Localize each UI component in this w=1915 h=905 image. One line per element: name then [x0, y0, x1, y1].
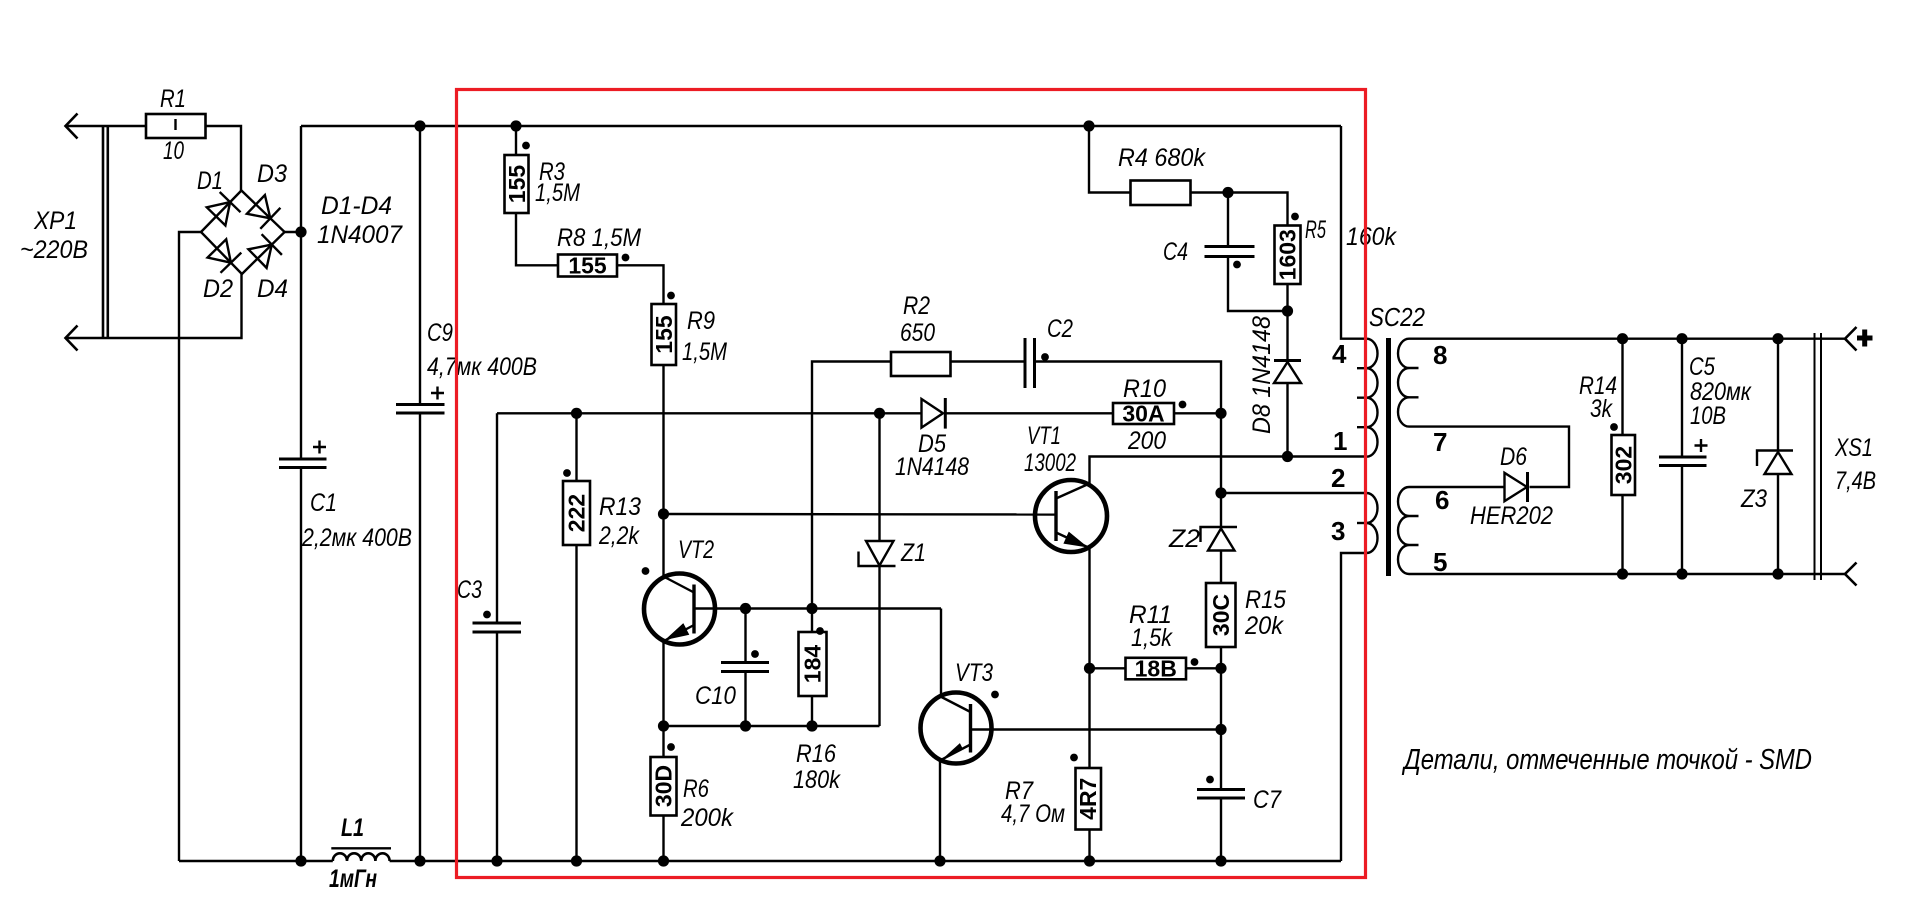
svg-text:1,5k: 1,5k [1131, 624, 1173, 652]
label C3 [457, 576, 482, 604]
capacitor C5 [1659, 439, 1708, 466]
svg-text:200: 200 [1127, 427, 1166, 455]
svg-text:D2: D2 [203, 275, 233, 303]
wire D6 anode to pin6 [1409, 486, 1505, 488]
node C7 bottom [1215, 855, 1226, 866]
resistor R4 [1131, 181, 1191, 206]
node C10 top [740, 603, 751, 614]
label R9 [682, 307, 727, 366]
svg-text:L1: L1 [341, 814, 364, 842]
node R6 bottom [658, 855, 669, 866]
wire R6 bottom [662, 816, 664, 862]
wire Z1 anode down [878, 566, 880, 726]
svg-text:R1: R1 [160, 85, 186, 113]
capacitor C2 [1025, 338, 1035, 388]
resistor R11 [1126, 656, 1187, 682]
wire Z3 top [1777, 339, 1779, 451]
node Z3 bottom [1772, 568, 1783, 579]
wire top rail [301, 125, 1341, 127]
wire R14 bottom [1621, 495, 1623, 574]
label Z1 [900, 539, 926, 567]
svg-text:180k: 180k [793, 766, 841, 794]
wire C9 column top [419, 126, 421, 405]
wire R11 right [1186, 667, 1221, 669]
resistor R16 [799, 609, 827, 727]
smd dot C10 [751, 650, 759, 658]
svg-text:4R7: 4R7 [1075, 778, 1101, 820]
svg-text:C1: C1 [310, 489, 337, 517]
svg-text:6: 6 [1435, 485, 1449, 515]
note SMD [1402, 744, 1812, 776]
wire R6 top stub [662, 726, 664, 757]
smd dot R5 [1291, 213, 1299, 221]
svg-text:8: 8 [1433, 340, 1447, 370]
transformer T1 primary winding 4-1 [1357, 339, 1378, 457]
svg-text:3: 3 [1331, 516, 1345, 546]
svg-text:R10: R10 [1123, 375, 1166, 403]
svg-text:C4: C4 [1163, 238, 1188, 266]
svg-text:18B: 18B [1135, 656, 1177, 682]
wire R7 bottom [1088, 830, 1090, 862]
label D5 [895, 430, 969, 481]
smd dot VT3 [991, 691, 999, 699]
transformer T1 primary winding 2-3 [1357, 493, 1378, 553]
node bridge plus [295, 226, 306, 237]
wire C4 bottom to junction [1228, 257, 1288, 312]
diode D2 [208, 239, 242, 272]
label VT1 [1024, 422, 1076, 477]
node VT3 emitter [934, 855, 945, 866]
diode D1 [207, 192, 241, 226]
svg-text:R8 1,5M: R8 1,5M [557, 224, 641, 252]
smd dot R11 [1191, 658, 1199, 666]
transformer T1 core [1386, 338, 1391, 576]
label D6 [1470, 443, 1553, 530]
smd dot C7 [1206, 776, 1214, 784]
svg-text:1: 1 [1333, 426, 1347, 456]
svg-text:10В: 10В [1690, 402, 1726, 430]
wire R3 to R8 [516, 213, 558, 265]
node pin2 tap [1215, 487, 1226, 498]
connector XS1 plug lines [1815, 333, 1822, 580]
svg-text:C3: C3 [457, 576, 482, 604]
svg-text:C7: C7 [1253, 786, 1282, 814]
wire VT1 emitter [1088, 548, 1090, 668]
svg-text:5: 5 [1433, 547, 1447, 577]
wire C10 bottom stub [744, 672, 746, 727]
label R15 [1244, 586, 1286, 640]
smd dot R7 [1070, 754, 1078, 762]
diode D3 [247, 195, 281, 229]
label R4 [1118, 144, 1206, 172]
wire R5 top [1228, 193, 1288, 226]
smd dot R10 [1179, 401, 1187, 409]
diode D6 [1505, 472, 1528, 502]
label R2 [900, 292, 935, 347]
wire R5 bottom [1286, 284, 1288, 311]
svg-text:20k: 20k [1244, 612, 1284, 640]
label C1 [301, 489, 412, 552]
wire bridge left to left rail [179, 232, 201, 861]
wire VT2 base to VT3 collector [694, 607, 941, 609]
svg-text:R6: R6 [683, 775, 709, 803]
label Z3 [1740, 485, 1767, 513]
zener Z1 wire [878, 413, 880, 541]
svg-text:R9: R9 [687, 307, 715, 335]
svg-text:D4: D4 [257, 275, 288, 303]
svg-text:HER202: HER202 [1470, 502, 1553, 530]
capacitor C7 [1197, 790, 1245, 799]
svg-text:10: 10 [163, 137, 184, 165]
svg-text:1603: 1603 [1275, 229, 1301, 280]
node R14 top [1617, 333, 1628, 344]
wire mains top [66, 125, 147, 127]
wire R1 to bridge top [206, 126, 242, 191]
diode D5 [922, 398, 946, 429]
node D8 pin1 junction [1282, 451, 1293, 462]
smd dot C4 [1233, 261, 1241, 269]
svg-text:1N4148: 1N4148 [895, 453, 969, 481]
node C5 top [1676, 333, 1687, 344]
wire Z2 to R15 [1220, 551, 1222, 584]
wire R15 bottom [1220, 647, 1222, 730]
label D1 [197, 167, 223, 195]
node VT2 emitter [658, 720, 669, 731]
svg-text:7: 7 [1433, 427, 1447, 457]
svg-text:D1: D1 [197, 167, 223, 195]
svg-text:2,2мк 400В: 2,2мк 400В [301, 524, 412, 552]
svg-text:Z1: Z1 [900, 539, 926, 567]
capacitor C9 [396, 387, 445, 414]
wire C3 top from rail [496, 413, 498, 623]
zener Z3 [1757, 451, 1793, 475]
capacitor C3 [473, 623, 522, 632]
wire secondary top rail [1409, 338, 1845, 340]
label L1 [329, 814, 377, 893]
svg-text:2: 2 [1331, 463, 1345, 493]
wire R13 top stub [575, 413, 577, 481]
capacitor C4 [1205, 247, 1255, 257]
node C3 bottom [491, 855, 502, 866]
smd dot VT2 [642, 567, 650, 575]
connector XS1 arrow plus [1845, 327, 1873, 351]
smd dot R9 [667, 292, 675, 300]
svg-text:SC22: SC22 [1369, 302, 1425, 332]
svg-text:4: 4 [1332, 339, 1347, 369]
resistor R8 [558, 253, 617, 279]
capacitor C10 [721, 663, 769, 672]
label R1 [160, 85, 186, 165]
svg-text:R16: R16 [796, 740, 836, 768]
node R3 top [510, 120, 521, 131]
label R13 [598, 493, 641, 550]
wire R10 right [1174, 412, 1221, 414]
wire R4 right [1191, 191, 1229, 193]
svg-text:D6: D6 [1500, 443, 1527, 471]
smd dot R14 [1610, 423, 1618, 431]
connector XP1 arrow top [66, 114, 78, 139]
wire R2 to C2 [951, 360, 1026, 362]
svg-text:155: 155 [504, 165, 530, 204]
node C9 top [414, 120, 425, 131]
label pin 3 [1331, 516, 1345, 546]
smd dot C2 [1041, 353, 1049, 361]
wire C10 top stub [744, 609, 746, 663]
svg-text:C2: C2 [1047, 315, 1073, 343]
wire pin2 [1221, 492, 1367, 494]
resistor R14 [1610, 435, 1636, 495]
smd dot R8 [622, 254, 630, 262]
wire feedback rail y413 [497, 412, 922, 414]
node VT2 collector tap [658, 508, 669, 519]
transistor VT3 [921, 693, 992, 764]
transistor VT1 [1035, 480, 1107, 552]
wire C4 top stub [1227, 193, 1229, 247]
node R11 R15 junction [1215, 663, 1226, 674]
svg-text:160k: 160k [1346, 223, 1397, 251]
label C7 [1253, 786, 1282, 814]
svg-text:650: 650 [900, 319, 935, 347]
node R14 bottom [1617, 568, 1628, 579]
svg-text:D3: D3 [257, 160, 287, 188]
svg-text:1N4007: 1N4007 [317, 221, 403, 249]
node R16 bottom [806, 720, 817, 731]
svg-text:30C: 30C [1208, 594, 1234, 636]
frame SMPS red box [457, 90, 1366, 878]
node VT1 emitter junction [1084, 663, 1095, 674]
label XP1 [20, 207, 88, 264]
label VT3 [955, 659, 993, 687]
svg-text:Z3: Z3 [1740, 485, 1767, 513]
node VT3 base junction [1215, 724, 1226, 735]
svg-text:155: 155 [568, 253, 607, 279]
connector XS1 arrow minus [1845, 563, 1857, 586]
wire Z3 bottom [1777, 474, 1779, 574]
svg-text:1,5M: 1,5M [682, 338, 727, 366]
wire D8 anode stub [1286, 383, 1288, 456]
wire VT3 emitter [939, 760, 941, 861]
label pin 2 [1331, 463, 1345, 493]
wire C5 top [1681, 339, 1683, 457]
label pin 4 [1332, 339, 1347, 369]
node R4 C4 R5 junction [1222, 187, 1233, 198]
node R4 top [1083, 120, 1094, 131]
label pin 1 [1333, 426, 1347, 456]
label D8 [1248, 316, 1276, 434]
wire secondary bottom rail [1409, 573, 1845, 575]
wire C2 to column [1035, 362, 1222, 414]
wire top rail corner to pin4 [1341, 126, 1367, 339]
label SC22 [1369, 302, 1425, 332]
transformer T1 secondary winding 6-5 [1398, 487, 1419, 574]
transistor VT2 [644, 574, 715, 645]
label VT2 [678, 536, 714, 564]
wire R14 top [1621, 339, 1623, 435]
label C5 [1689, 353, 1752, 430]
label R11 [1129, 601, 1173, 652]
node R13 bottom [571, 855, 582, 866]
resistor R10 [1113, 401, 1174, 427]
wire VT1 collector to pin1 [1090, 457, 1367, 484]
svg-text:XS1: XS1 [1834, 434, 1873, 462]
wire emitter rail y726 [664, 725, 880, 727]
smd dot R16 [816, 627, 824, 635]
label D4 [257, 275, 288, 303]
wire C7 bottom [1220, 798, 1222, 861]
label R5 [1305, 216, 1397, 251]
label XS1 [1834, 434, 1876, 495]
svg-text:D8 1N4148: D8 1N4148 [1248, 316, 1276, 434]
wire bridge right stub [285, 231, 301, 233]
wire C9 column bottom [419, 413, 421, 861]
svg-text:Z2: Z2 [1168, 525, 1200, 553]
label pin 5 [1433, 547, 1447, 577]
label pin 7 [1433, 427, 1447, 457]
smd dot R13 [563, 469, 571, 477]
wire VT2 emitter [662, 641, 664, 726]
inductor L1 [331, 848, 391, 861]
wire mains bottom [66, 274, 242, 338]
svg-text:C10: C10 [695, 682, 736, 710]
resistor R9 [651, 304, 677, 365]
smd dot R3 [522, 142, 530, 150]
resistor R7 [1075, 768, 1101, 830]
resistor R1 [146, 114, 206, 138]
label R6 [680, 775, 734, 832]
wire bottom rail [179, 860, 1341, 862]
resistor R3 [504, 155, 530, 213]
resistor R15 [1206, 583, 1236, 647]
label D3 [257, 160, 287, 188]
capacitor C1 [279, 441, 327, 468]
label D1-D4 1N4007 [317, 192, 403, 249]
wire R4 left [1089, 126, 1131, 193]
svg-text:C5: C5 [1689, 353, 1715, 381]
svg-text:XP1: XP1 [33, 207, 77, 235]
smd dot R6 [667, 743, 675, 751]
node C1 bottom [295, 855, 306, 866]
svg-text:184: 184 [800, 645, 826, 684]
wire R2 left branch [812, 362, 891, 609]
label Z2 [1168, 525, 1200, 553]
svg-text:VT2: VT2 [678, 536, 714, 564]
label D2 [203, 275, 233, 303]
bridge diamond wires [201, 191, 285, 275]
svg-text:4,7 Ом: 4,7 Ом [1001, 800, 1065, 828]
node R10 C2 junction [1215, 408, 1226, 419]
node D5 Z1 junction [874, 408, 885, 419]
wire D8 cathode stub [1286, 311, 1288, 361]
resistor R5 [1275, 226, 1301, 285]
svg-text:~220В: ~220В [20, 236, 88, 264]
resistor R13 [563, 481, 590, 545]
node C9 bottom [414, 855, 425, 866]
node R7 bottom [1084, 855, 1095, 866]
node Z3 top [1772, 333, 1783, 344]
svg-text:222: 222 [564, 494, 590, 532]
svg-text:2,2k: 2,2k [598, 522, 640, 550]
diode D8 [1274, 361, 1301, 384]
svg-text:200k: 200k [680, 804, 734, 832]
wire C1 column bottom [300, 468, 302, 862]
label R8 [557, 224, 641, 252]
connector XP1 arrow bottom [66, 326, 78, 351]
label pin 6 [1435, 485, 1449, 515]
svg-text:VT3: VT3 [955, 659, 993, 687]
zener Z2 [1201, 527, 1238, 551]
wire VT1 base [664, 513, 1057, 516]
svg-text:R5: R5 [1305, 216, 1326, 244]
wire R13 bottom [575, 545, 577, 861]
node R13 top [571, 408, 582, 419]
node C10 bottom [740, 720, 751, 731]
wire column x1221 upper [1220, 413, 1222, 527]
resistor R2 [891, 352, 951, 376]
label C9 [427, 319, 537, 381]
smd dot C3 [483, 611, 491, 619]
svg-text:7,4В: 7,4В [1835, 467, 1876, 495]
wire R8 to R9 [617, 265, 664, 304]
svg-text:4,7мк 400В: 4,7мк 400В [427, 353, 537, 381]
label C10 [695, 682, 736, 710]
svg-text:155: 155 [651, 315, 677, 354]
wire VT3 base [971, 728, 1222, 730]
wire pin3 to bottom rail [1341, 553, 1367, 861]
label R3 [535, 158, 580, 207]
svg-text:3k: 3k [1590, 395, 1613, 423]
resistor R6 [651, 757, 677, 816]
wire VT3 collector [940, 609, 942, 697]
diode D4 [248, 234, 282, 268]
label R10 [1123, 375, 1166, 455]
label C2 [1047, 315, 1073, 343]
zener Z1 [859, 541, 896, 566]
svg-text:C9: C9 [427, 319, 453, 347]
wire C1 column top [300, 126, 302, 459]
transformer T1 secondary winding 8-7 [1398, 339, 1419, 427]
label R14 [1579, 372, 1617, 423]
svg-text:30A: 30A [1122, 401, 1164, 427]
wire C3 bottom [496, 632, 498, 861]
svg-text:R13: R13 [599, 493, 641, 521]
connector XP1 plug lines [103, 126, 108, 338]
node C5 bottom [1676, 568, 1687, 579]
wire R7 top [1088, 668, 1090, 768]
wire R11 left [1090, 667, 1126, 669]
svg-text:VT1: VT1 [1027, 422, 1061, 450]
node R16 top [806, 603, 817, 614]
svg-text:30D: 30D [651, 765, 677, 807]
svg-text:13002: 13002 [1024, 449, 1076, 477]
svg-text:1мГн: 1мГн [329, 865, 377, 893]
wire R9 to VT2 collector [662, 365, 664, 578]
node C4 R5 D8 junction [1282, 305, 1293, 316]
svg-text:D1-D4: D1-D4 [321, 192, 392, 220]
label C4 [1163, 238, 1188, 266]
svg-text:R15: R15 [1245, 586, 1286, 614]
svg-text:R2: R2 [903, 292, 930, 320]
label pin 8 [1433, 340, 1447, 370]
svg-text:302: 302 [1610, 446, 1636, 484]
svg-text:1,5M: 1,5M [535, 179, 580, 207]
svg-text:Детали, отмеченные точкой - SM: Детали, отмеченные точкой - SMD [1402, 744, 1812, 776]
wire C5 bottom [1681, 466, 1683, 575]
svg-text:R4 680k: R4 680k [1118, 144, 1206, 172]
wire pin7 jog [1409, 427, 1569, 487]
label R7 [1001, 777, 1065, 828]
label R16 [793, 740, 841, 794]
wire D5 to R10 [945, 412, 1113, 414]
